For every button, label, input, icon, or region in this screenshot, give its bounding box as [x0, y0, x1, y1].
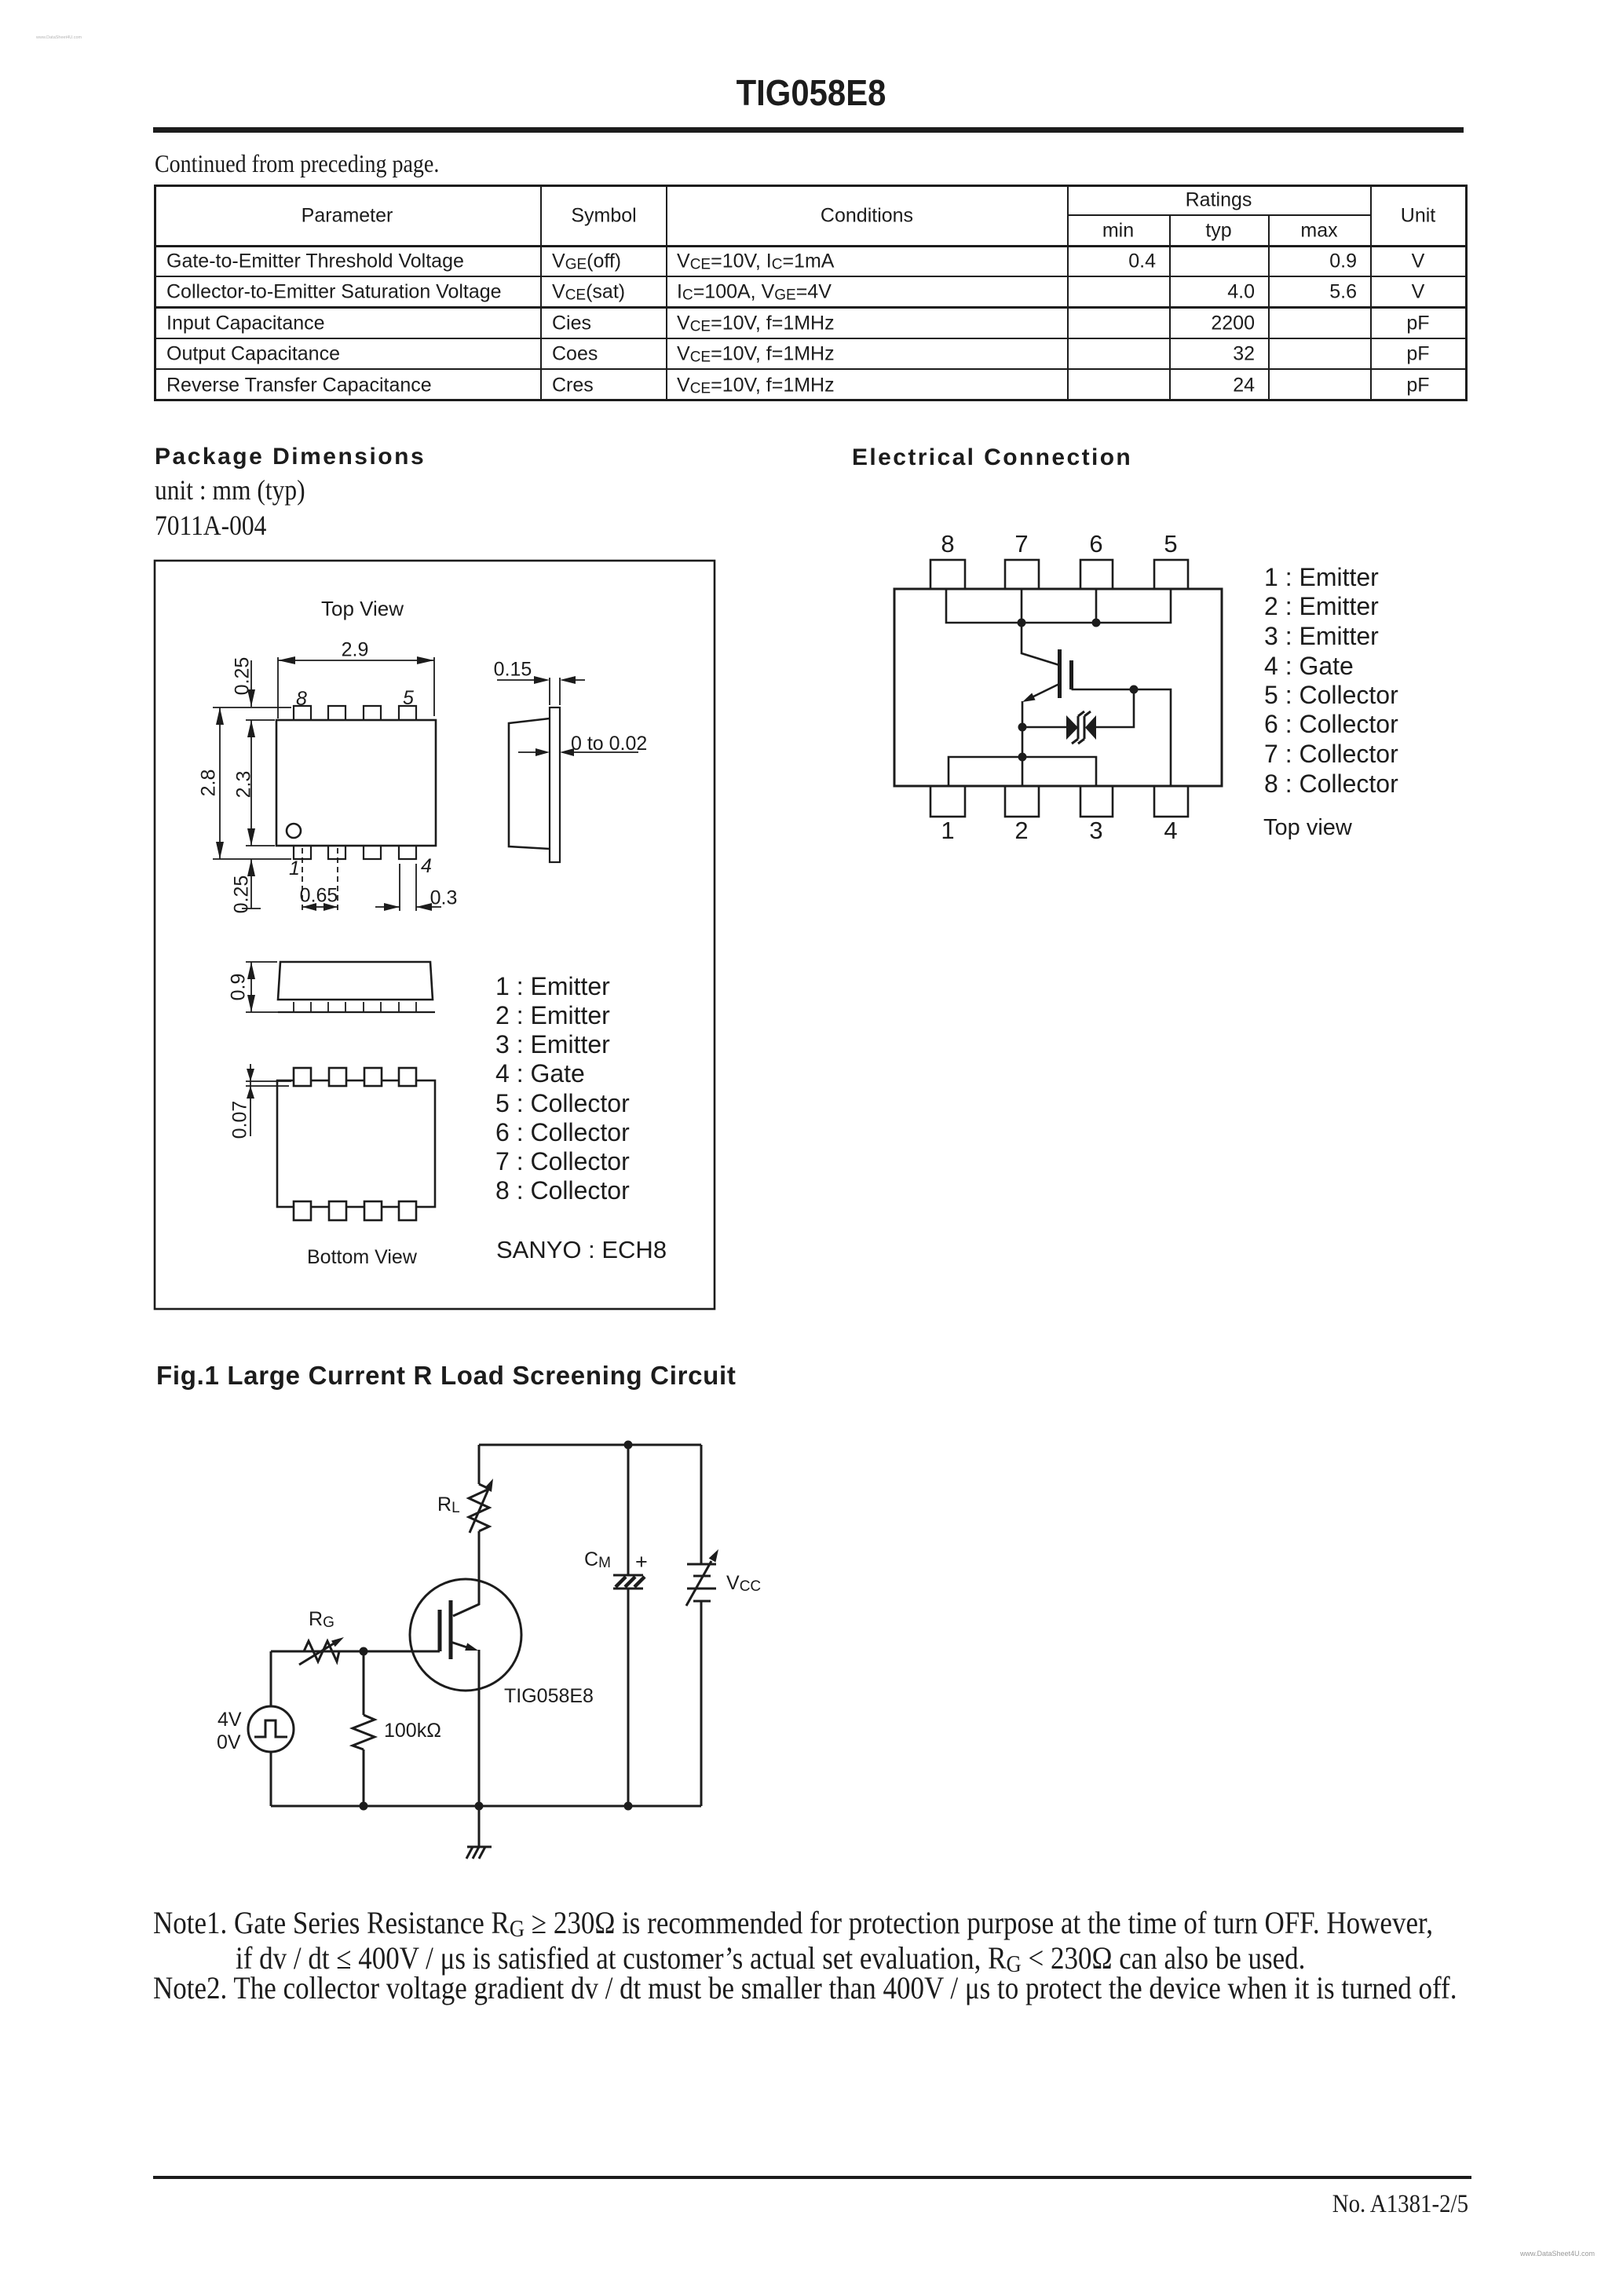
- pin number label 1: [941, 818, 954, 843]
- transistor Q1 IGBT gate bar: [1069, 660, 1073, 689]
- dimension 2.8: [213, 707, 291, 859]
- node: gate / 100k junction: [360, 1647, 368, 1656]
- capacitor CM: [613, 1575, 645, 1589]
- bottom view pads top row: [294, 1068, 416, 1086]
- top view label: [321, 598, 404, 619]
- wire: emitter vertical to pin 2: [1022, 701, 1024, 786]
- ground: [466, 1806, 492, 1859]
- dimension 2.9: [278, 656, 434, 718]
- transistor Q1 TIG058E8 circle: [410, 1579, 521, 1691]
- wire: gate lead to pin 4: [1072, 689, 1172, 786]
- IC package outline U1: [894, 589, 1222, 786]
- wire: pulse source to gate: [270, 1651, 272, 1706]
- transistor Q1 emitter arrow: [451, 1642, 478, 1651]
- dimension 0.07: [246, 1064, 291, 1136]
- resistor R1 100k: [353, 1651, 375, 1806]
- wire: bottom rail: [271, 1805, 701, 1808]
- watermark top-left: [36, 36, 82, 41]
- pin 1 pad: [930, 786, 965, 817]
- transistor Q1 emitter arrow: [1022, 684, 1059, 702]
- label 100k: [384, 1721, 441, 1741]
- bottom view pins (1..4): [294, 846, 416, 859]
- pin function list: [1264, 565, 1379, 590]
- wire: collector bus pins 8-7-6-5: [946, 589, 1171, 623]
- resistor RG (variable gate resistor): [299, 1637, 344, 1665]
- wire: diode to gate drop: [1096, 689, 1134, 727]
- dimension 0.25 top: [213, 660, 291, 707]
- pin number label 5: [1164, 532, 1177, 556]
- node: emitter bottom junction: [475, 1802, 484, 1811]
- wire: RL to transistor collector: [453, 1531, 479, 1616]
- node: gate-diode junction: [1130, 686, 1139, 694]
- dim labels: [342, 641, 369, 660]
- bottom view body: [277, 1080, 435, 1207]
- node: bus-pin6 junction: [1092, 619, 1101, 627]
- pin 4 pad: [1154, 786, 1188, 817]
- source VCC bottom lead: [700, 1601, 703, 1806]
- node: diode-emitter junction: [1018, 723, 1027, 732]
- pin1 indicator circle: [287, 824, 301, 838]
- top view pins (8..5): [294, 706, 416, 720]
- label TIG058E8: [504, 1687, 594, 1706]
- diode D1 gate protection (back-to-back zener): [1066, 711, 1096, 744]
- label 4V 0V: [217, 1710, 242, 1730]
- pin 8 pad: [930, 560, 965, 589]
- pin 6 pad: [1080, 560, 1113, 589]
- pulse source V1: [248, 1706, 294, 1752]
- package dimensions outline box: [155, 561, 715, 1309]
- source VCC (variable supply): [686, 1549, 718, 1606]
- capacitor CM bottom lead: [627, 1589, 630, 1806]
- node: 100k bottom junction: [360, 1802, 368, 1811]
- title rule: [153, 127, 1464, 133]
- node: emitter bus junction: [1018, 753, 1027, 762]
- continued: [155, 151, 439, 176]
- resistor RL (variable load): [469, 1479, 493, 1533]
- wire: emitter down to bottom rail: [478, 1650, 481, 1806]
- pin 2 pad: [1005, 786, 1039, 817]
- wire: emitter bus pins 1-2-3: [949, 757, 1096, 786]
- pin number label 4: [1164, 818, 1177, 843]
- wire: gate lead: [271, 1651, 440, 1653]
- label VCC: [726, 1574, 761, 1593]
- source VCC top lead: [700, 1445, 703, 1563]
- wire: top rail: [479, 1444, 701, 1446]
- bottom view pads bottom row: [294, 1201, 416, 1220]
- side elevation body (0.9 view): [278, 962, 435, 1012]
- wire: collector lead into transistor: [1022, 623, 1059, 665]
- label RG: [309, 1610, 334, 1629]
- label CM: [584, 1550, 611, 1570]
- pin 3 pad: [1080, 786, 1113, 817]
- dimension 2.3: [246, 720, 275, 846]
- wire: collector drop to RL: [478, 1445, 481, 1484]
- node: bus-pin7 junction: [1018, 619, 1026, 627]
- pin 7 pad: [1005, 560, 1039, 589]
- transistor Q1 body bar: [449, 1600, 453, 1659]
- transistor Q1 IGBT body bar: [1058, 649, 1062, 698]
- pin number label 3: [1089, 818, 1102, 843]
- wire: pulse source to bottom rail: [270, 1752, 272, 1806]
- label RL: [437, 1495, 460, 1515]
- side view molded body: [509, 718, 550, 849]
- dimension 0.15: [497, 676, 585, 705]
- title: [737, 75, 886, 111]
- label plus: [635, 1552, 648, 1573]
- pin 5 pad: [1154, 560, 1188, 589]
- dimension 0.25 bottom: [242, 859, 261, 909]
- pin number label 6: [1089, 532, 1102, 556]
- wire: diode anode to emitter line: [1022, 726, 1066, 729]
- transistor Q1 gate bar: [438, 1610, 442, 1651]
- pin number label 2: [1014, 818, 1028, 843]
- side view lead frame: [550, 707, 560, 862]
- package top view body: [276, 720, 436, 846]
- pin number label 8: [941, 532, 954, 556]
- node: top rail / CM junction: [624, 1441, 633, 1450]
- node: CM bottom junction: [624, 1802, 633, 1811]
- dimension 0.65: [302, 848, 338, 911]
- dimension 0.9: [246, 962, 291, 1012]
- capacitor CM top lead: [627, 1445, 630, 1574]
- pkg pin list: [495, 974, 610, 999]
- pin number label 7: [1014, 532, 1028, 556]
- dimension 0 to 0.02: [518, 748, 638, 756]
- dimension 0.3: [375, 864, 441, 911]
